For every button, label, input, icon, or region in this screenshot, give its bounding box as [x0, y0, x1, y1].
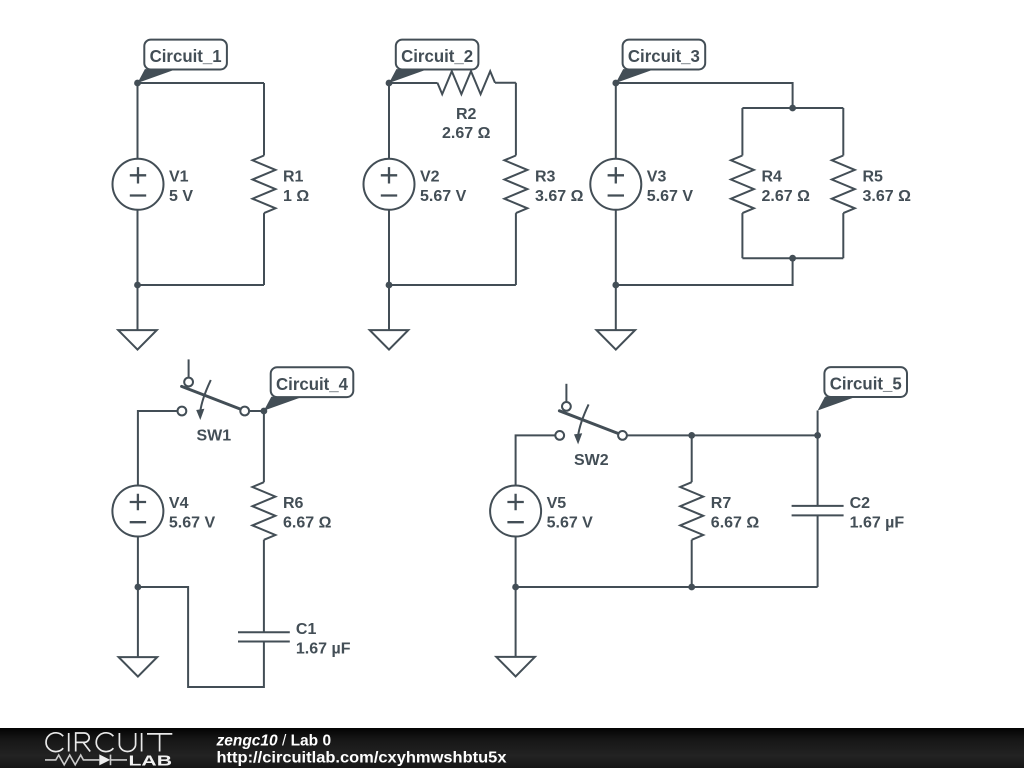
wire circuit5 bottom rail — [516, 586, 818, 588]
label R3 value — [535, 168, 584, 205]
svg-text:SW2: SW2 — [574, 452, 609, 469]
voltage source V3 — [590, 159, 641, 210]
node circuit3 top junction — [789, 105, 796, 112]
svg-text:V1: V1 — [169, 168, 189, 185]
wire circuit4 C1-to-bottom loop — [138, 587, 264, 687]
wire circuit3 ground stem — [615, 285, 617, 330]
svg-text:LAB: LAB — [129, 753, 173, 768]
svg-text:Circuit_3: Circuit_3 — [628, 46, 700, 66]
wire circuit3 parallel bottom bus — [742, 257, 843, 259]
svg-text:R1: R1 — [283, 168, 304, 185]
svg-text:Circuit_2: Circuit_2 — [401, 46, 473, 66]
node circuit5 bottom junction — [688, 584, 695, 591]
label R1 value — [283, 168, 309, 205]
svg-text:V5: V5 — [547, 495, 567, 512]
callout label Circuit_3 — [616, 40, 705, 83]
wire circuit4 switch-to-node — [249, 410, 264, 412]
wire circuit5 V5 bottom lead — [515, 537, 517, 588]
resistor R3 with leads — [515, 83, 517, 156]
svg-text:R7: R7 — [711, 495, 732, 512]
svg-text:1.67 µF: 1.67 µF — [296, 641, 351, 658]
node circuit1 anchor — [134, 80, 141, 87]
resistor R6 with leads — [263, 411, 265, 482]
label C1 value — [296, 621, 351, 658]
svg-text:Circuit_1: Circuit_1 — [150, 46, 222, 66]
voltage source V4 — [112, 486, 163, 537]
svg-text:C2: C2 — [850, 495, 871, 512]
node circuit3 bottom — [612, 282, 619, 289]
node circuit5 C2 top junction — [814, 432, 821, 439]
svg-text:5.67 V: 5.67 V — [169, 515, 216, 532]
svg-text:V2: V2 — [420, 168, 440, 185]
label R4 value — [762, 168, 811, 205]
node circuit5 bottom — [512, 584, 519, 591]
node circuit2 bottom — [386, 282, 393, 289]
svg-text:zengc10 / Lab 0: zengc10 / Lab 0 — [216, 732, 332, 749]
label V2 value — [420, 168, 467, 205]
label R2 value — [442, 106, 491, 142]
wire circuit3 bottom rail — [616, 258, 793, 285]
wire circuit4 V4 bottom lead — [137, 537, 139, 588]
node circuit3 bottom junction — [789, 255, 796, 262]
callout label Circuit_2 — [389, 40, 478, 83]
label V5 value — [547, 495, 594, 532]
ground — [119, 657, 158, 677]
node circuit1 bottom — [134, 282, 141, 289]
voltage source V2 — [364, 159, 415, 210]
resistor R5 with leads — [842, 108, 844, 156]
wire circuit3 parallel top bus — [742, 107, 843, 109]
switch SW2 terminals — [555, 402, 627, 440]
wire circuit5 V5-to-switch — [516, 435, 556, 485]
svg-text:http://circuitlab.com/cxyhmwsh: http://circuitlab.com/cxyhmwshbtu5x — [217, 749, 507, 766]
switch SW1 stub — [188, 359, 190, 377]
label V1 value — [169, 168, 193, 205]
svg-text:5.67 V: 5.67 V — [547, 515, 594, 532]
capacitor C2 — [792, 435, 844, 587]
wire circuit3 left branch — [615, 83, 617, 285]
svg-text:1.67 µF: 1.67 µF — [850, 515, 905, 532]
svg-text:5 V: 5 V — [169, 188, 193, 205]
ground — [496, 657, 535, 677]
ground — [370, 330, 409, 350]
label V4 value — [169, 495, 216, 532]
callout label Circuit_4 — [264, 367, 353, 410]
wire circuit2 bottom rail — [389, 284, 516, 286]
wire circuit4 ground stem — [137, 587, 139, 657]
svg-text:6.67 Ω: 6.67 Ω — [711, 515, 760, 532]
label V3 value — [647, 168, 694, 205]
resistor R4 with leads — [741, 108, 743, 156]
svg-text:C1: C1 — [296, 621, 317, 638]
node circuit4 switch node — [261, 408, 268, 415]
svg-text:R6: R6 — [283, 495, 304, 512]
svg-text:5.67 V: 5.67 V — [647, 188, 694, 205]
resistor R7 with leads — [691, 435, 693, 482]
switch SW1 actuator arrow — [200, 380, 211, 412]
svg-text:2.67 Ω: 2.67 Ω — [442, 125, 491, 142]
svg-text:5.67 V: 5.67 V — [420, 188, 467, 205]
wire circuit5 top rail — [627, 434, 818, 436]
wire circuit1 bottom rail — [138, 284, 265, 286]
label R5 value — [863, 168, 912, 205]
switch SW1 terminals — [178, 378, 250, 416]
wire circuit2 ground stem — [388, 285, 390, 330]
svg-text:3.67 Ω: 3.67 Ω — [863, 188, 912, 205]
wire circuit4 V4-to-switch — [138, 411, 178, 486]
ground — [597, 330, 636, 350]
callout label Circuit_1 — [138, 40, 227, 83]
voltage source V1 — [113, 159, 164, 210]
node circuit5 top junction — [688, 432, 695, 439]
node circuit2 anchor — [386, 80, 393, 87]
svg-text:R3: R3 — [535, 168, 556, 185]
wire circuit5 ground stem — [515, 587, 517, 656]
callout label Circuit_5 — [818, 367, 907, 410]
svg-text:V4: V4 — [169, 495, 189, 512]
svg-text:R4: R4 — [762, 168, 783, 185]
logo CIRCUIT wordmark (hand-drawn strokes) — [46, 733, 172, 752]
svg-text:R2: R2 — [456, 106, 477, 123]
resistor R1 with leads — [263, 83, 265, 156]
svg-text:1 Ω: 1 Ω — [283, 188, 309, 205]
switch SW1 blade — [182, 386, 241, 409]
switch SW2 stub — [565, 384, 567, 402]
svg-text:SW1: SW1 — [196, 428, 231, 445]
node circuit4 bottom — [135, 584, 142, 591]
svg-text:3.67 Ω: 3.67 Ω — [535, 188, 584, 205]
resistor R2 with leads — [389, 82, 437, 84]
label R6 value — [283, 495, 332, 532]
switch SW2 actuator arrow — [578, 404, 589, 436]
wire circuit5 callout stub — [817, 411, 819, 436]
logo resistor-diode squiggle — [45, 755, 127, 766]
voltage source V5 — [490, 486, 541, 537]
wire circuit1 top rail — [138, 82, 265, 84]
wire circuit1 left branch (V1 leads) — [137, 83, 139, 285]
node circuit3 anchor — [612, 80, 619, 87]
switch SW2 blade — [559, 411, 618, 434]
label R7 value — [711, 495, 760, 532]
svg-text:Circuit_4: Circuit_4 — [276, 374, 348, 394]
wire circuit1 ground stem — [137, 285, 139, 330]
svg-text:V3: V3 — [647, 168, 667, 185]
label C2 value — [850, 495, 905, 532]
svg-text:2.67 Ω: 2.67 Ω — [762, 188, 811, 205]
ground — [118, 330, 157, 350]
svg-text:Circuit_5: Circuit_5 — [830, 374, 902, 394]
capacitor C1 — [238, 632, 290, 641]
wire circuit3 top rail — [616, 83, 793, 108]
svg-text:6.67 Ω: 6.67 Ω — [283, 515, 332, 532]
svg-text:R5: R5 — [863, 168, 884, 185]
wire circuit2 left branch — [388, 83, 390, 285]
